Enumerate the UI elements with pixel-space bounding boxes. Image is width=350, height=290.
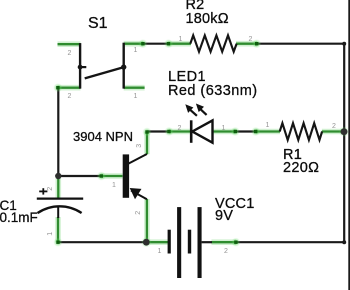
glow Q1 collector xyxy=(144,132,150,154)
transistor Q1 collector lead xyxy=(128,154,147,164)
connection marker: VCC1 pin2 xyxy=(231,238,240,247)
label VCC1 value xyxy=(215,198,254,223)
battery VCC1 bar2 tall xyxy=(177,207,181,278)
switch S1 right pole xyxy=(122,43,124,89)
pin number S1 top-right 1 xyxy=(134,47,138,55)
green core strokes of net stubs xyxy=(58,44,344,243)
glow R1 pin2 xyxy=(322,129,343,135)
battery VCC1 right lead xyxy=(202,241,212,243)
glow S1 pin2 top-left xyxy=(58,41,81,47)
pin number R1 1 xyxy=(266,122,270,130)
connection marker: Q1 base xyxy=(97,171,106,180)
label R1 value xyxy=(283,149,319,175)
glow S1 pin1 top-right xyxy=(124,41,143,47)
connection marker: S1 pin1 net end xyxy=(138,39,147,48)
switch S1 contact dot left xyxy=(78,65,83,70)
core VCC1 pin1 xyxy=(146,241,168,243)
glow Q1 base xyxy=(101,173,122,179)
core R2 pin2 xyxy=(236,43,257,45)
pin number S1 top-left 2 xyxy=(68,50,72,58)
connection marker: R2 pin1 xyxy=(164,39,173,48)
core S1 pin1 top-right xyxy=(124,43,143,45)
switch S1 lever xyxy=(85,67,124,78)
pin number R1 2 xyxy=(332,123,336,131)
core R1 pin1 xyxy=(256,130,280,132)
net stub glows (soft halo around green pin legs) xyxy=(58,44,344,243)
core LED1 pin1 xyxy=(213,130,236,132)
label LED1 value xyxy=(168,70,258,98)
pin number R2 1 xyxy=(179,36,183,44)
wire: base branch from left rail to Q1 base xyxy=(58,175,102,177)
core R1 pin2 xyxy=(322,130,343,132)
glow S1 pin2 bottom-left xyxy=(58,85,81,91)
core C1 pin1 xyxy=(57,217,59,242)
glow LED1 pin2 xyxy=(169,129,191,135)
switch S1 left pole xyxy=(79,43,81,89)
capacitor C1 plus sign xyxy=(39,188,47,194)
wire: bottom, battery junction to C1 bottom corner xyxy=(57,241,146,243)
capacitor C1 top plate xyxy=(37,197,83,199)
glow R2 pin2 xyxy=(236,41,257,47)
label R2 value xyxy=(186,0,229,26)
core C1 pin2 xyxy=(57,177,59,199)
core Q1 emitter xyxy=(146,199,148,242)
glow VCC1 pin1 xyxy=(146,239,168,245)
corner joint dot bottom-right xyxy=(342,240,346,244)
glow LED1 pin1 xyxy=(213,129,236,135)
core VCC1 pin2 xyxy=(212,241,237,243)
core Q1 collector xyxy=(146,132,148,154)
LED1 cathode bar xyxy=(190,120,193,143)
pin number LED1 1 xyxy=(222,125,226,133)
wire: collector corner to LED1 pin2 xyxy=(147,130,170,132)
pin number Q1 base 1 xyxy=(112,182,116,190)
core S1 pin2 top-left xyxy=(58,43,81,45)
connection marker: R1 pin1 xyxy=(251,127,260,136)
LED1 triangle xyxy=(192,120,212,142)
glow S1 pin1 bottom-right xyxy=(124,85,145,91)
glow C1 pin2 xyxy=(55,177,61,199)
corner joint dot top-right xyxy=(342,42,346,46)
core Q1 base xyxy=(101,175,122,177)
pin number LED1 2 xyxy=(178,125,182,133)
wire: R2 pin2 to top-right corner, right rail, bottom to battery xyxy=(236,44,344,243)
LED1 emission arrow 2 shaft xyxy=(200,109,207,115)
pin number VCC1 2 xyxy=(224,248,228,256)
connection marker: C1 pin1 bottom corner xyxy=(53,238,62,247)
glow C1 pin1 xyxy=(55,217,61,242)
capacitor C1 bottom lead xyxy=(57,206,59,218)
core S1 pin2 bottom-left xyxy=(58,87,81,89)
switch S1 pivot dot right xyxy=(121,64,126,69)
LED1 emission arrow 1 shaft xyxy=(190,109,197,115)
switch S1 contact tick xyxy=(80,66,86,68)
wire: left rail from switch down to C1 junction xyxy=(57,87,59,177)
pin number Q1 emitter 2 (rotated) xyxy=(135,210,143,214)
pin number C1 2 (rotated) xyxy=(47,187,55,191)
core S1 pin1 bottom-right xyxy=(124,87,145,89)
transistor Q1 emitter arrowhead xyxy=(130,188,142,199)
junction dot: emitter / battery / bottom wire xyxy=(141,237,151,247)
pin number S1 bottom-right 1 xyxy=(134,93,138,101)
glow R1 pin1 xyxy=(256,129,280,135)
pin number S1 bottom-left 2 xyxy=(68,93,72,101)
frame border right edge xyxy=(348,0,350,290)
transistor Q1 emitter lead xyxy=(131,191,147,200)
connection marker: LED1 pin2 xyxy=(164,127,173,136)
glow Q1 emitter xyxy=(144,199,150,242)
battery VCC1 bar3 short xyxy=(188,230,191,254)
battery VCC1 bar4 tall xyxy=(198,207,202,278)
label C1 value xyxy=(0,200,38,225)
resistor R1 zigzag xyxy=(280,123,322,140)
battery VCC1 bar1 short xyxy=(168,230,171,254)
glow VCC1 pin2 xyxy=(212,239,237,245)
connection marker: S1 pin2 bottom at rail corner xyxy=(53,83,62,92)
pin number Q1 collector 3 (rotated) xyxy=(136,143,144,147)
transistor Q1 base bar xyxy=(123,154,129,197)
LED1 emission arrow 2 head xyxy=(196,104,204,113)
pin number R2 2 xyxy=(249,36,253,44)
junction dot: left rail / base branch xyxy=(55,173,61,179)
connection marker: R2 pin2 xyxy=(252,39,261,48)
capacitor C1 curved bottom plate xyxy=(38,206,82,213)
connection marker: LED1 pin1 xyxy=(231,127,240,136)
LED1 emission arrow 1 head xyxy=(185,104,193,113)
core R2 pin1 xyxy=(168,43,191,45)
pin number C1 1 (rotated) xyxy=(47,231,55,235)
core LED1 pin2 xyxy=(169,130,191,132)
label S1 xyxy=(88,15,108,33)
junction dot: R1 pin2 / right rail xyxy=(339,127,349,137)
glow R2 pin1 xyxy=(168,41,191,47)
pin number VCC1 1 xyxy=(158,248,162,256)
wire: switch S1 pin1 to R2 pin1 (top) xyxy=(142,43,169,45)
resistor R2 zigzag xyxy=(190,35,236,51)
label Q1 3904 NPN xyxy=(73,129,133,144)
connection marker: Q1 collector corner xyxy=(142,127,151,136)
wire: LED1 pin1 to R1 pin1 xyxy=(235,130,257,132)
